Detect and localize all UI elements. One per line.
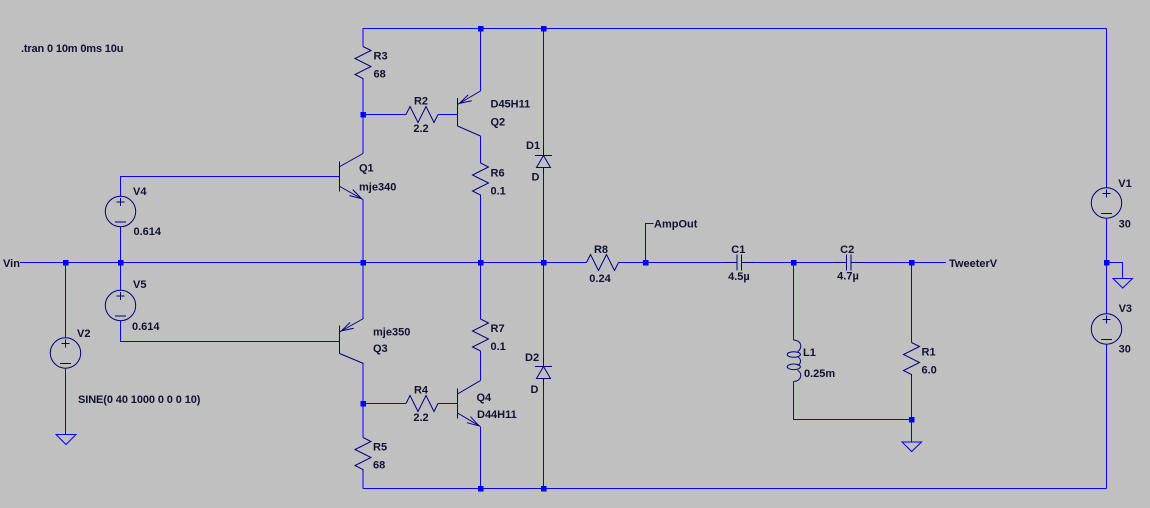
svg-text:R7: R7 <box>491 323 505 335</box>
transistor Q4 D44H11 <box>458 381 517 427</box>
junction Q1/Q3 emitters <box>361 260 367 266</box>
svg-text:0.614: 0.614 <box>134 226 162 238</box>
wire L1 to bottom node <box>794 382 912 420</box>
junction supply midpoint <box>1104 260 1110 266</box>
svg-text:V5: V5 <box>133 279 146 291</box>
wire rail to D2 <box>543 263 545 358</box>
junction C2/R1/TweeterV <box>909 260 915 266</box>
svg-text:4.5µ: 4.5µ <box>728 271 750 283</box>
svg-text:30: 30 <box>1119 344 1131 356</box>
wire Q1 emitter to rail <box>362 200 364 263</box>
voltage source V1 <box>1091 178 1131 231</box>
svg-text:0.24: 0.24 <box>589 273 611 285</box>
svg-text:30: 30 <box>1119 219 1131 231</box>
svg-text:Q4: Q4 <box>477 392 493 404</box>
svg-text:Q1: Q1 <box>359 163 374 175</box>
wire R7 to Q4 collector <box>480 351 482 381</box>
svg-text:0.614: 0.614 <box>132 321 160 333</box>
wire node to ground G2 <box>911 420 913 443</box>
inductor L1 <box>787 340 835 382</box>
junction R6/R7 rail <box>478 260 484 266</box>
svg-text:D2: D2 <box>525 352 539 364</box>
voltage source V2 <box>50 328 200 406</box>
svg-text:mje340: mje340 <box>359 182 396 194</box>
transistor Q1 mje340 <box>339 154 396 200</box>
wire node to R5 <box>362 404 364 438</box>
wire top rail <box>363 28 1107 30</box>
wire top rail to Q2 emitter <box>480 29 482 92</box>
junction bottom rail D2 <box>541 486 547 492</box>
wire Q3 collector to node <box>362 364 364 404</box>
svg-text:R4: R4 <box>414 385 429 397</box>
wire D2 to bottom rail <box>543 385 545 489</box>
wire R4 to Q4 base <box>438 403 458 405</box>
voltage source V5 <box>105 279 160 333</box>
svg-text:V4: V4 <box>133 186 147 198</box>
wire rail to R7 <box>480 263 482 320</box>
wire R2 to Q2 base <box>438 114 458 116</box>
svg-text:Q3: Q3 <box>373 343 388 355</box>
svg-text:Q2: Q2 <box>491 117 506 129</box>
wire R3 bottom to node <box>362 81 364 115</box>
wire top rail to V1 <box>1106 29 1108 189</box>
svg-text:SINE(0 40 1000 0 0 0 10): SINE(0 40 1000 0 0 0 10) <box>78 394 201 406</box>
junction top rail D1 <box>541 26 547 32</box>
resistor R6 <box>473 163 506 198</box>
wire R3 top lead <box>362 29 364 47</box>
resistor R1 <box>904 343 937 377</box>
wire mid rail R8 to C1 <box>619 262 725 264</box>
junction D1/D2 rail <box>541 260 547 266</box>
junction C1/C2/L1 <box>791 260 797 266</box>
svg-text:D44H11: D44H11 <box>477 409 517 421</box>
node label TweeterV <box>949 258 998 270</box>
svg-text:V2: V2 <box>77 328 90 340</box>
junction R3/R2/Q1 <box>361 112 367 118</box>
svg-text:0.1: 0.1 <box>491 341 506 353</box>
junction AmpOut rail <box>643 260 649 266</box>
wire rail to V5 top <box>120 263 122 291</box>
svg-text:R3: R3 <box>374 51 388 63</box>
svg-text:4.7µ: 4.7µ <box>837 271 859 283</box>
wire D1 to rail <box>543 174 545 263</box>
wire node to R2 <box>363 114 406 116</box>
resistor R8 <box>587 244 619 285</box>
svg-text:R8: R8 <box>594 244 608 256</box>
node Vin label <box>3 258 20 270</box>
wire AmpOut stub <box>646 224 654 263</box>
svg-text:0.1: 0.1 <box>491 186 506 198</box>
wire top rail to D1 <box>543 29 545 147</box>
capacitor C2 <box>834 244 864 283</box>
wire R1 to bottom node <box>911 377 913 420</box>
wire V4 bottom to rail <box>120 227 122 263</box>
ground supply midpoint <box>1113 279 1133 289</box>
svg-text:V1: V1 <box>1118 178 1131 190</box>
wire Q1 collector riser <box>362 115 364 154</box>
svg-text:68: 68 <box>374 69 386 81</box>
svg-text:AmpOut: AmpOut <box>654 219 698 231</box>
spice directive .tran <box>21 43 123 55</box>
ground below V2 <box>56 435 76 445</box>
wire V2 to ground <box>65 368 67 435</box>
wire mid rail Vin to R8 <box>20 262 587 264</box>
svg-text:V3: V3 <box>1119 303 1132 315</box>
resistor R4 <box>406 385 438 425</box>
svg-text:6.0: 6.0 <box>922 365 937 377</box>
junction Vin/V2 <box>63 260 69 266</box>
svg-text:2.2: 2.2 <box>413 412 428 424</box>
transistor Q2 D45H11 <box>458 91 531 136</box>
wire V3 to bottom rail <box>1106 344 1108 489</box>
svg-text:D45H11: D45H11 <box>491 99 531 111</box>
svg-text:R2: R2 <box>414 96 428 108</box>
wire R5 to bottom rail <box>362 472 364 489</box>
voltage source V4 <box>105 186 162 238</box>
svg-text:68: 68 <box>373 460 385 472</box>
svg-text:D: D <box>531 384 539 396</box>
wire Q4 emitter to bottom rail <box>480 427 482 489</box>
ground below R1/L1 <box>902 442 922 452</box>
resistor R5 <box>355 438 387 472</box>
resistor R7 <box>473 319 506 353</box>
junction L1/R1 bottom <box>909 417 915 423</box>
svg-text:L1: L1 <box>803 347 816 359</box>
voltage source V3 <box>1091 303 1132 356</box>
svg-text:0.25m: 0.25m <box>804 368 835 380</box>
wire V4 to Q1 base <box>121 177 340 197</box>
junction Q3/R4/R5 <box>361 401 367 407</box>
junction bottom rail Q4 <box>478 486 484 492</box>
wire mid rail C2 to TweeterV <box>863 262 946 264</box>
wire rail to Q3 emitter <box>362 263 364 319</box>
svg-text:mje350: mje350 <box>373 327 410 339</box>
diode D2 <box>525 352 552 396</box>
wire Q2 collector to R6 <box>480 136 482 163</box>
wire rail to R1 <box>911 263 913 343</box>
svg-text:R1: R1 <box>922 347 936 359</box>
svg-text:TweeterV: TweeterV <box>949 258 998 270</box>
svg-text:D1: D1 <box>526 140 540 152</box>
resistor R3 <box>355 47 388 81</box>
svg-text:.tran 0 10m 0ms 10u: .tran 0 10m 0ms 10u <box>21 43 123 55</box>
junction top rail Q2 <box>478 26 484 32</box>
svg-text:C1: C1 <box>731 244 745 256</box>
junction Vin/V4/V5 <box>118 260 124 266</box>
wire rail to L1 <box>793 263 795 341</box>
svg-text:2.2: 2.2 <box>413 123 428 135</box>
wire R6 to rail <box>480 197 482 263</box>
svg-text:R5: R5 <box>373 442 387 454</box>
wire V2 branch down <box>65 263 67 339</box>
wire V1 to V3 <box>1106 218 1108 314</box>
wire mid rail C1 to C2 <box>754 262 834 264</box>
svg-text:D: D <box>532 172 540 184</box>
resistor R2 <box>406 96 438 136</box>
wire bottom rail <box>363 488 1107 490</box>
node label AmpOut <box>654 219 698 231</box>
wire node to R4 <box>363 403 406 405</box>
svg-text:Vin: Vin <box>3 258 20 270</box>
wire V5 to Q3 base <box>121 321 340 342</box>
svg-text:R6: R6 <box>491 168 505 180</box>
svg-text:C2: C2 <box>840 244 854 256</box>
wire supply midpoint to ground G3 <box>1107 263 1123 279</box>
diode D1 <box>526 140 552 184</box>
capacitor C1 <box>724 244 754 283</box>
transistor Q3 mje350 <box>340 319 411 364</box>
